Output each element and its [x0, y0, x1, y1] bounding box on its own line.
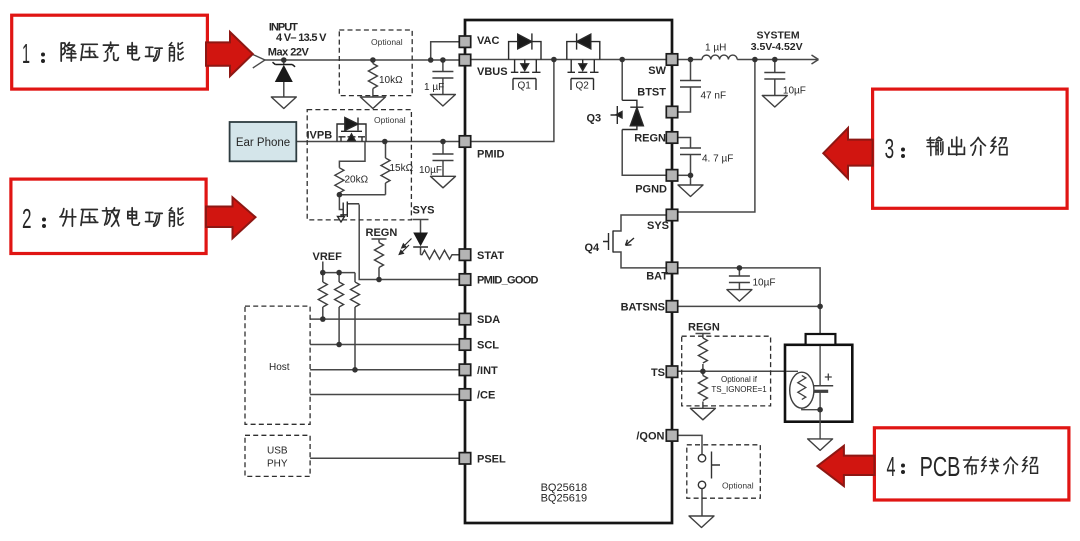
arrow callout 2 — [206, 197, 256, 238]
svg-text:2: 2 — [22, 203, 32, 234]
optional box TS — [682, 336, 771, 406]
wire SYSTEM cap branch — [774, 60, 776, 96]
wire internal PMID to Q1Q2 node — [471, 60, 554, 142]
svg-text:4. 7 µF: 4. 7 µF — [702, 154, 733, 165]
svg-text:Optional: Optional — [722, 481, 754, 491]
ground input TVS — [271, 97, 296, 109]
svg-text:Q3: Q3 — [587, 113, 602, 125]
svg-text:3.5V-4.52V: 3.5V-4.52V — [751, 41, 803, 53]
ground battery — [808, 439, 833, 451]
capacitor 4.7uF REGN — [680, 148, 733, 165]
callout box 1 — [12, 15, 208, 89]
node PMID cap tap — [440, 139, 446, 145]
wire VREF bar — [323, 262, 355, 273]
wire TS resistor lower to gnd — [702, 364, 704, 408]
node 10k tap — [370, 57, 376, 63]
wire QON net — [678, 435, 702, 454]
wire internal Q4 to BAT — [613, 252, 666, 268]
svg-text:PMID_GOOD: PMID_GOOD — [477, 275, 539, 287]
wire SYSTEM node to SYS pin — [678, 60, 755, 213]
svg-text:4 V– 13.5 V: 4 V– 13.5 V — [276, 32, 327, 44]
resistor VREF pullup1 — [318, 282, 327, 307]
pin TS — [666, 366, 677, 377]
capacitor 47nF BTST — [680, 81, 726, 102]
pin /QON — [666, 430, 677, 441]
node SW Q3 — [619, 57, 625, 63]
Host block — [245, 306, 310, 424]
svg-text:SYS: SYS — [647, 220, 669, 232]
callout box 3 — [873, 89, 1068, 208]
svg-text:10µF: 10µF — [753, 278, 776, 289]
svg-text:SYS: SYS — [413, 205, 435, 217]
ground QON — [689, 516, 714, 528]
optional box QON — [687, 445, 761, 498]
arrow callout 4 — [818, 446, 875, 486]
svg-text:1: 1 — [22, 38, 30, 69]
pin PGND — [666, 170, 677, 181]
wire REGN TS pullup stub — [696, 334, 711, 339]
svg-text:BATSNS: BATSNS — [621, 302, 665, 314]
resistor R3 15k — [381, 158, 414, 183]
svg-text:TS: TS — [651, 367, 665, 379]
svg-text:USB: USB — [267, 446, 288, 457]
wire thermistor bottom — [802, 408, 820, 410]
pin BATSNS — [666, 301, 677, 312]
wire 20k bottom to NMOS gate — [339, 193, 342, 210]
svg-text:Q2: Q2 — [576, 81, 590, 92]
svg-text:VBUS: VBUS — [477, 66, 508, 78]
pin PSEL — [459, 453, 470, 464]
capacitor 10uF BAT — [729, 276, 776, 289]
resistor R1 10k — [368, 60, 403, 97]
node INT pullup — [352, 367, 358, 373]
node VAC branch — [428, 57, 434, 63]
svg-text:Optional: Optional — [371, 37, 403, 47]
wire 20k gate link — [339, 142, 365, 168]
node SW cap tap — [688, 57, 694, 63]
pin /INT — [459, 364, 470, 375]
node Q1Q2 mid — [551, 57, 557, 63]
thermistor — [790, 372, 814, 408]
wire VAC branch — [431, 42, 460, 60]
node SDA pullup — [320, 316, 326, 322]
ground 10uF PMID — [431, 176, 456, 188]
svg-text:Q4: Q4 — [585, 242, 601, 254]
node BAT cap tap — [737, 265, 743, 271]
svg-text:10kΩ: 10kΩ — [379, 75, 403, 86]
svg-text:Q1: Q1 — [518, 81, 532, 92]
pin REGN — [666, 132, 677, 143]
ground REGN cap — [678, 185, 703, 197]
svg-text:REGN: REGN — [634, 133, 666, 145]
wire input rail VBUS — [265, 59, 460, 61]
node PGND cap — [688, 173, 694, 179]
resistor REGN pullup — [375, 243, 384, 268]
svg-text:/INT: /INT — [477, 365, 498, 377]
Ear Phone block — [230, 122, 297, 161]
svg-text:SDA: SDA — [477, 314, 500, 326]
node IVPB out — [382, 139, 388, 145]
wire PMID_GOOD net — [359, 205, 459, 280]
callout box 4 — [874, 428, 1069, 500]
transistor Q4 — [603, 231, 634, 253]
transistor NMOS boost disable — [338, 202, 360, 223]
node SYSTEM cap tap — [772, 57, 778, 63]
pin STAT — [459, 249, 470, 260]
label callout 1 text — [22, 38, 183, 69]
transistor Q3 — [611, 100, 644, 129]
wire BATSNS out — [678, 305, 820, 307]
node SCL pullup — [336, 342, 342, 348]
wire BAT out — [678, 268, 820, 334]
resistor STAT series — [421, 250, 453, 259]
svg-text:10µF: 10µF — [419, 165, 442, 176]
optional box input detect — [339, 30, 412, 96]
svg-text:PGND: PGND — [635, 183, 667, 195]
transistor IVPB PMOS with diode — [337, 118, 366, 142]
svg-text:Optional if: Optional if — [721, 375, 758, 384]
wire SYS tick to LED — [413, 220, 429, 233]
svg-text:/QON: /QON — [636, 431, 664, 443]
wire 47nF branch to BTST — [678, 60, 691, 113]
pin BAT — [666, 262, 677, 273]
wire PMID rail from Ear Phone — [296, 141, 459, 143]
wire SDA net — [310, 318, 459, 320]
arrow callout 1 — [206, 32, 253, 76]
node input TVS — [281, 57, 287, 63]
switch QON — [698, 452, 720, 489]
wire SW out — [678, 59, 817, 61]
node TS tap — [700, 369, 706, 375]
svg-text:VREF: VREF — [313, 251, 343, 263]
svg-text:BTST: BTST — [637, 87, 666, 99]
op-amp U1 BQ25618 IC body — [465, 20, 672, 523]
pin SW — [666, 54, 677, 65]
pin SDA — [459, 313, 470, 324]
ground 1uF — [430, 95, 455, 107]
pin SCL — [459, 339, 470, 350]
svg-text:REGN: REGN — [688, 322, 720, 334]
wire /INT net — [310, 369, 459, 371]
capacitor 10uF SYSTEM — [764, 73, 806, 97]
ground TS — [690, 408, 715, 420]
pin PMID_GOOD — [459, 274, 470, 285]
svg-text:STAT: STAT — [477, 250, 504, 262]
svg-text:Ear Phone: Ear Phone — [236, 137, 290, 149]
svg-text:SCL: SCL — [477, 340, 499, 352]
node 20k-15k junction — [337, 192, 343, 198]
optional box boost — [307, 110, 411, 220]
capacitor C2 10uF PMID — [419, 142, 454, 177]
battery cell — [808, 374, 833, 392]
input chevron — [253, 55, 265, 69]
capacitor C1 1uF — [424, 60, 453, 95]
svg-text:1 µH: 1 µH — [705, 43, 726, 54]
resistor TS lower — [698, 376, 707, 401]
node BATSNS join — [817, 304, 823, 310]
wire /CE net — [310, 394, 459, 396]
pin /CE — [459, 389, 470, 400]
ground BAT cap — [727, 290, 752, 302]
wire 15k to node — [339, 142, 385, 195]
svg-text:VAC: VAC — [477, 35, 499, 47]
svg-text:15kΩ: 15kΩ — [390, 163, 414, 174]
svg-text:BQ25619: BQ25619 — [541, 493, 587, 505]
resistor TS upper — [698, 338, 707, 363]
wire internal SYS to Q4 — [613, 215, 666, 231]
wire LED cathode to STAT resistor — [421, 247, 460, 255]
battery pack box — [785, 345, 852, 422]
resistor VREF pullup3 — [351, 282, 360, 307]
wire PGND out — [678, 174, 691, 176]
pin SYS — [666, 209, 677, 220]
wire TS net — [678, 370, 786, 372]
wire internal Q3 drain — [621, 60, 623, 101]
node 1uF tap — [440, 57, 446, 63]
svg-text:PMID: PMID — [477, 149, 505, 161]
label callout 4 text — [887, 451, 1038, 482]
wire PSEL net — [310, 457, 459, 459]
node REGN resistor bottom — [376, 277, 382, 283]
wire QON switch to gnd — [701, 489, 703, 516]
svg-text:Max 22V: Max 22V — [268, 46, 310, 58]
callout box 2 — [11, 179, 206, 253]
wire internal VBUS-SW rail — [471, 59, 666, 61]
diode D1 TVS input — [273, 60, 296, 97]
led STAT — [398, 233, 428, 256]
USB PHY block — [245, 435, 310, 476]
wire REGN stub to PMID_GOOD — [372, 239, 387, 280]
ground SYSTEM cap — [762, 96, 787, 108]
arrow callout 3 — [823, 128, 872, 179]
transistor Q1 — [509, 33, 541, 90]
wire VREF pullup SDA — [322, 273, 324, 320]
svg-text:PSEL: PSEL — [477, 453, 506, 465]
pin VBUS — [459, 54, 470, 65]
svg-text:Optional: Optional — [374, 115, 406, 125]
ground 10k — [360, 97, 385, 109]
svg-text:PHY: PHY — [267, 459, 288, 470]
node SYSTEM branch — [752, 57, 758, 63]
transistor Q2 — [567, 33, 600, 90]
svg-text:IVPB: IVPB — [307, 130, 333, 142]
wire VREF pullup SCL — [338, 273, 340, 345]
svg-text:BAT: BAT — [646, 271, 668, 283]
svg-text:/CE: /CE — [477, 390, 495, 402]
svg-text:4: 4 — [887, 451, 896, 482]
label callout 2 text — [22, 203, 183, 234]
svg-text:SW: SW — [648, 65, 666, 77]
svg-text:3: 3 — [885, 133, 895, 164]
svg-text:Host: Host — [269, 362, 290, 373]
resistor VREF pullup2 — [335, 282, 344, 307]
svg-text:REGN: REGN — [366, 227, 398, 239]
wire VREF pullup INT — [354, 273, 356, 370]
svg-text:PCB: PCB — [920, 451, 961, 482]
svg-text:SYSTEM: SYSTEM — [757, 29, 800, 41]
svg-text:20kΩ: 20kΩ — [345, 175, 369, 186]
node VREF bar1 — [320, 270, 326, 276]
node battery bottom — [817, 407, 823, 413]
wire battery cell internal — [786, 345, 820, 439]
pin PMID — [459, 136, 470, 147]
resistor R2 20k — [335, 168, 369, 193]
wire internal Q3 source to PGND — [622, 130, 666, 176]
inductor L1 1uH — [702, 55, 737, 59]
node VREF bar2 — [336, 270, 342, 276]
wire BAT cap branch — [738, 268, 740, 290]
svg-text:1 µF: 1 µF — [424, 82, 444, 93]
pin BTST — [666, 106, 677, 117]
svg-text:47 nF: 47 nF — [701, 91, 727, 102]
node dots — [281, 57, 823, 413]
pin VAC — [459, 36, 470, 47]
svg-text:TS_IGNORE=1: TS_IGNORE=1 — [711, 385, 767, 394]
battery terminal — [806, 334, 836, 345]
wire REGN cap branch — [678, 138, 691, 186]
GLYPHS — [265, 42, 821, 516]
wire SCL net — [310, 344, 459, 346]
label callout 3 text — [885, 133, 1007, 164]
wire SYSTEM arrowhead — [812, 55, 819, 64]
